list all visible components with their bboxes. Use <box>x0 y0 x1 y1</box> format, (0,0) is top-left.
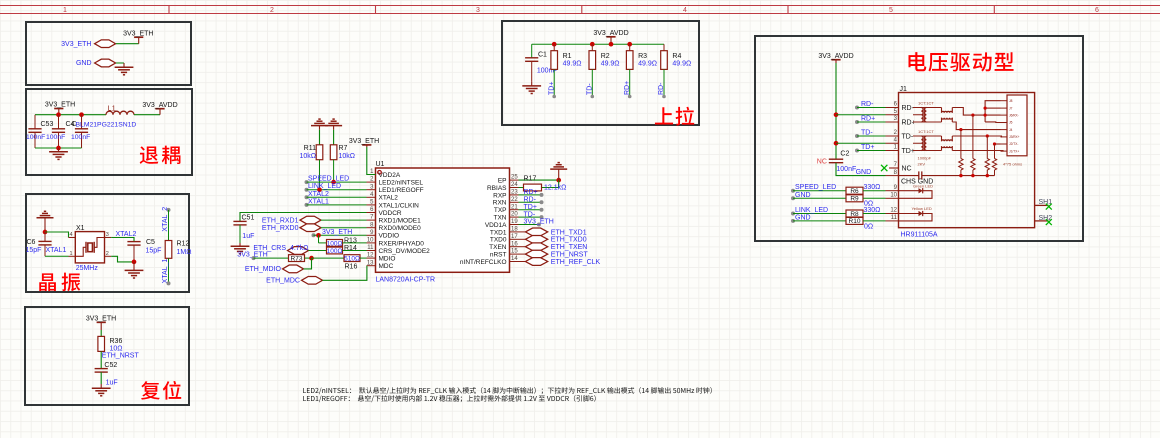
svg-text:TXEN: TXEN <box>489 244 507 251</box>
wire XTAL2 net <box>111 238 134 242</box>
node TD- <box>591 95 595 99</box>
svg-text:R8: R8 <box>850 211 859 218</box>
node TD+ <box>552 95 556 99</box>
resistor R9 <box>846 195 863 202</box>
wire R9 to pin10 <box>863 197 886 199</box>
pin 3 stub <box>886 121 899 123</box>
wire L1 to 3V3_AVDD <box>134 114 160 116</box>
wire shield row4 <box>985 121 1000 124</box>
port ETH_TXEN <box>525 243 547 251</box>
ground inverted R7 <box>333 126 335 130</box>
wire XTAL1 <box>305 203 309 207</box>
wire C51 to gnd <box>239 225 241 243</box>
wire gnd to X1 pin4 <box>45 232 69 238</box>
note LED2/nINTSEL <box>303 387 712 394</box>
wire R12 to XTAL_1 <box>168 258 170 283</box>
node XTAL_2 top <box>167 208 171 212</box>
junction <box>316 233 321 238</box>
wire ETH_NRST node <box>100 351 102 368</box>
svg-text:13: 13 <box>367 260 374 266</box>
power flag 3V3_ETH U1 <box>362 144 371 146</box>
wire bottom rail <box>35 147 82 149</box>
power flag 3V3_ETH <box>134 36 143 38</box>
power flag 3V3_AVDD magjack <box>831 59 840 61</box>
svg-text:100Ω: 100Ω <box>327 240 343 247</box>
svg-text:11: 11 <box>891 215 898 221</box>
wire centertap TD <box>836 142 886 144</box>
svg-text:14: 14 <box>511 256 518 262</box>
port ETH_NRST <box>525 250 547 258</box>
svg-text:100nF: 100nF <box>71 134 90 141</box>
wire TD- <box>591 69 593 96</box>
pin 16 TXEN <box>510 246 519 248</box>
svg-text:GND: GND <box>856 169 872 176</box>
svg-text:25MHz: 25MHz <box>76 265 99 272</box>
wire 3V3_ETH VDDIO <box>312 233 316 237</box>
wire GND port to ground <box>116 62 124 64</box>
svg-text:R7: R7 <box>339 145 348 152</box>
wire R16 to pin12 <box>360 257 367 259</box>
port ETH_TXD1 <box>525 228 547 236</box>
wire R11 to LINK_LED <box>319 160 321 190</box>
pin J1/TX+ shield box <box>1001 150 1008 152</box>
svg-text:12.1kΩ: 12.1kΩ <box>544 185 566 192</box>
svg-text:R12: R12 <box>177 241 190 248</box>
svg-text:C1: C1 <box>538 52 547 59</box>
resistor R6 <box>846 187 863 194</box>
svg-text:12: 12 <box>890 208 897 214</box>
junction <box>552 42 557 47</box>
svg-text:3: 3 <box>106 232 109 238</box>
svg-text:LINK_LED: LINK_LED <box>308 183 341 190</box>
wire RD- <box>663 69 665 96</box>
svg-text:330Ω: 330Ω <box>864 207 881 214</box>
svg-text:11: 11 <box>367 245 374 251</box>
resistor R4 <box>663 44 665 51</box>
svg-text:100nF: 100nF <box>836 166 856 173</box>
noconnect SH2 <box>1046 219 1052 225</box>
section box power flags <box>26 22 191 85</box>
resistor R1 <box>553 44 555 51</box>
title decoupling <box>140 146 181 165</box>
svg-text:330Ω: 330Ω <box>864 184 881 191</box>
resistor R10 <box>846 217 863 224</box>
resistor R14 <box>327 247 343 254</box>
svg-text:NC: NC <box>817 158 827 165</box>
svg-text:15: 15 <box>511 249 518 255</box>
svg-text:1uF: 1uF <box>106 380 118 387</box>
wire SH1 <box>1035 204 1049 206</box>
pin 5 stub <box>886 114 899 116</box>
svg-text:3V3_AVDD: 3V3_AVDD <box>818 53 853 60</box>
pin 6 VDDCR <box>367 212 376 214</box>
junction <box>627 42 632 47</box>
wire XTAL2 <box>305 195 309 199</box>
svg-text:2: 2 <box>106 251 109 257</box>
svg-text:XTAL1: XTAL1 <box>46 247 67 254</box>
wire R10 to pin11 <box>863 220 886 222</box>
wire RXD0 <box>321 227 367 229</box>
junction <box>309 256 314 261</box>
wire R73 to junction <box>305 257 312 259</box>
port ETH_CRS <box>288 247 309 255</box>
wire RD- <box>519 201 542 203</box>
wire VDDIO to R13 <box>318 235 320 243</box>
svg-text:2: 2 <box>270 7 274 14</box>
svg-text:GND: GND <box>795 214 811 221</box>
section box crystal <box>26 194 189 292</box>
wire SPEED_LED <box>305 180 309 184</box>
svg-text:TXD0: TXD0 <box>490 237 507 244</box>
junction <box>609 42 614 47</box>
ground decoupling <box>58 148 60 152</box>
wire dropper 2 <box>972 115 974 158</box>
svg-text:NC: NC <box>902 165 912 172</box>
wire RD+ <box>629 69 631 96</box>
svg-text:10kΩ: 10kΩ <box>299 153 316 160</box>
svg-text:EP: EP <box>498 178 507 185</box>
svg-text:18: 18 <box>511 227 518 233</box>
svg-text:J1: J1 <box>900 86 908 93</box>
pin 22 RXN <box>510 201 519 203</box>
power flag 3V3_AVDD pullup <box>606 36 615 38</box>
wire 3V3_AVDD vertical <box>835 63 837 159</box>
svg-text:LED1/REGOFF: LED1/REGOFF <box>379 187 424 194</box>
wire RD secondary top to RX- <box>952 108 1000 116</box>
section box magjack <box>755 36 1083 241</box>
wire dropper 3 <box>986 136 988 159</box>
svg-text:24: 24 <box>511 182 518 188</box>
svg-text:1: 1 <box>70 251 73 257</box>
pin 17 TXD0 <box>510 238 519 240</box>
resistor R16 <box>344 255 360 262</box>
wire TD- magjack <box>855 134 859 138</box>
wire pullup rail <box>532 43 664 45</box>
pin 15 nRST <box>510 253 519 255</box>
svg-text:LINK_LED: LINK_LED <box>795 207 828 214</box>
svg-text:J2/TX-: J2/TX- <box>1009 142 1018 146</box>
svg-text:RD-: RD- <box>658 82 665 95</box>
svg-text:XTAL2: XTAL2 <box>308 191 329 198</box>
svg-text:R9: R9 <box>850 196 859 203</box>
svg-text:BLM21PG221SN1D: BLM21PG221SN1D <box>76 122 137 129</box>
svg-text:TXD1: TXD1 <box>490 229 507 236</box>
section box pullup <box>502 21 699 125</box>
port ETH_REF_CLK <box>525 258 547 266</box>
resistor terminator 3 <box>985 159 989 171</box>
svg-text:C2: C2 <box>840 151 849 158</box>
svg-text:RXD0/MODE0: RXD0/MODE0 <box>379 225 422 232</box>
ground C51 <box>239 243 241 246</box>
svg-text:3V3_ETH: 3V3_ETH <box>322 229 352 236</box>
svg-text:TD-: TD- <box>902 133 914 140</box>
svg-text:21: 21 <box>511 204 518 210</box>
pin 11 stub <box>886 220 899 222</box>
svg-text:XTAL2: XTAL2 <box>116 231 137 238</box>
node RD- <box>662 95 666 99</box>
junction <box>984 107 987 110</box>
svg-text:nRST: nRST <box>490 252 507 259</box>
svg-text:ETH_RXD1: ETH_RXD1 <box>262 217 299 224</box>
sheet frame ruler <box>0 5 1160 7</box>
svg-text:4: 4 <box>70 232 73 238</box>
svg-text:10Ω: 10Ω <box>110 346 123 353</box>
ic U1 body <box>376 168 510 272</box>
wire dropper 1 <box>960 130 962 159</box>
wire C52 to gnd <box>100 372 102 384</box>
wire R8 to pin12 <box>863 213 886 215</box>
pin 12 MDIO <box>367 257 376 259</box>
wire SH2 <box>1035 220 1049 222</box>
svg-text:100Ω: 100Ω <box>327 248 343 255</box>
ground pullup <box>531 82 533 86</box>
svg-text:1MΩ: 1MΩ <box>177 249 192 256</box>
svg-text:1uF: 1uF <box>242 233 254 240</box>
pin 21 TXP <box>510 209 519 211</box>
pin 1 stub <box>886 150 899 152</box>
svg-text:XTAL_1: XTAL_1 <box>162 259 169 284</box>
transformer T-RD <box>913 107 942 109</box>
svg-text:ETH_MDIO: ETH_MDIO <box>245 266 282 273</box>
svg-text:R11: R11 <box>304 145 316 152</box>
wire TD+ <box>553 69 555 96</box>
junction <box>959 174 962 177</box>
ground reset <box>100 384 102 388</box>
svg-text:R1: R1 <box>563 53 572 60</box>
svg-text:R2: R2 <box>601 53 610 60</box>
pin 24 RBIAS <box>510 187 519 189</box>
wire dropper 4 <box>994 144 996 159</box>
ground crystal <box>133 262 135 271</box>
power flag 3V3_AVDD <box>155 108 164 110</box>
svg-text:15pF: 15pF <box>146 247 162 254</box>
port ETH_MDC <box>302 276 323 284</box>
noconnect SH1 <box>1046 204 1052 210</box>
resistor R36 <box>98 336 105 351</box>
connector shield box <box>1007 95 1027 156</box>
note LED1/REGOFF <box>303 395 596 402</box>
ground <box>123 63 125 67</box>
svg-text:CRS_DV/MODE2: CRS_DV/MODE2 <box>379 248 431 255</box>
resistor R2 <box>591 44 593 51</box>
wire CRS to R14 <box>309 250 327 252</box>
wire R7 to SPEED_LED <box>333 160 335 182</box>
wire R6 to pin9 <box>863 190 886 192</box>
pin 13 MDC <box>367 265 376 267</box>
junction <box>43 230 48 235</box>
svg-text:RXN: RXN <box>493 200 507 207</box>
svg-text:Green LED: Green LED <box>913 183 933 188</box>
svg-text:RD-: RD- <box>902 105 915 112</box>
svg-text:3V3_ETH: 3V3_ETH <box>45 102 75 109</box>
wire EP to gnd <box>519 179 559 181</box>
junction <box>556 178 561 183</box>
svg-text:100nF: 100nF <box>46 134 65 141</box>
svg-text:GND: GND <box>795 192 811 199</box>
wire junction to R16 <box>312 257 345 259</box>
svg-text:49.9Ω: 49.9Ω <box>601 61 620 68</box>
wire VDDCR to C51 <box>240 213 367 222</box>
svg-text:TXP: TXP <box>494 207 507 214</box>
wire top rail <box>35 114 106 116</box>
svg-text:22: 22 <box>511 197 518 203</box>
led yellow <box>899 213 919 215</box>
pin 10 stub <box>886 197 899 199</box>
pin J4 shield box <box>1001 129 1008 131</box>
svg-text:4.7kΩ: 4.7kΩ <box>290 245 308 252</box>
port ETH_MDIO <box>283 265 304 273</box>
title reset <box>141 381 181 400</box>
pin 1 VDD2A <box>367 174 376 176</box>
svg-text:LED2/nINTSEL: LED2/nINTSEL <box>379 180 424 187</box>
pin 4 stub <box>886 142 899 144</box>
ground inverted R11 <box>319 126 321 130</box>
pin 10 RXER/PHYAD0 <box>367 242 376 244</box>
junction <box>56 112 61 117</box>
svg-text:ETH_TXD0: ETH_TXD0 <box>551 237 587 244</box>
port ETH_RXD0 <box>300 224 321 232</box>
wire GND R10 <box>791 219 795 223</box>
junction <box>317 187 322 192</box>
pin 25 EP <box>510 179 519 181</box>
port GND <box>95 59 116 67</box>
pin 8 RXD0/MODE0 <box>367 227 376 229</box>
wire TD secondary top <box>952 135 1001 138</box>
wire centertap RD <box>836 114 886 116</box>
svg-text:J4: J4 <box>1009 128 1013 132</box>
noconnect pin7 <box>881 165 887 171</box>
svg-text:0Ω: 0Ω <box>864 223 873 230</box>
resistor R11 <box>319 130 321 145</box>
wire 3V3_ETH port to flag <box>116 43 139 45</box>
svg-text:49.9Ω: 49.9Ω <box>563 61 582 68</box>
capacitor C52 <box>95 368 108 370</box>
svg-text:RXP: RXP <box>493 192 506 199</box>
wire X1 pin2 to gnd <box>111 256 134 262</box>
wire terminator feet <box>960 170 962 176</box>
wire RD secondary bottom to row5 <box>952 122 1000 130</box>
svg-text:LAN8720AI-CP-TR: LAN8720AI-CP-TR <box>376 277 436 284</box>
capacitor C4 <box>58 115 60 129</box>
svg-text:C6: C6 <box>27 239 36 246</box>
pin 7 RXD1/MODE1 <box>367 219 376 221</box>
svg-text:RD+: RD+ <box>624 81 631 95</box>
pin 11 CRS_DV/MODE2 <box>367 250 376 252</box>
pin 20 TXN <box>510 216 519 218</box>
wire shield row7 <box>995 143 1001 145</box>
junction <box>971 114 974 117</box>
section box decoupling <box>26 89 192 175</box>
svg-text:R16: R16 <box>345 264 358 271</box>
svg-text:ETH_TXEN: ETH_TXEN <box>551 244 588 251</box>
svg-text:Yellow LED: Yellow LED <box>912 206 932 211</box>
wire ETH_NRST <box>519 253 526 255</box>
svg-text:RXD1/MODE1: RXD1/MODE1 <box>379 218 422 225</box>
svg-text:VDD2A: VDD2A <box>379 172 401 179</box>
junction <box>834 112 839 117</box>
wire TD+ <box>519 209 542 211</box>
transformer T-TD <box>913 135 942 137</box>
wire XTAL_2 to R12 <box>168 210 170 241</box>
svg-text:RD+: RD+ <box>902 119 916 126</box>
svg-text:2KV: 2KV <box>918 162 926 167</box>
svg-text:16: 16 <box>511 241 518 247</box>
wire shield row1 <box>985 101 1000 122</box>
crystal X1 <box>69 237 76 239</box>
svg-text:10: 10 <box>890 193 897 199</box>
svg-text:TD-: TD- <box>586 83 593 95</box>
wire LINK_LED magjack <box>791 212 795 216</box>
pin 1 marker <box>378 171 382 175</box>
svg-text:R14: R14 <box>344 245 357 252</box>
ground inverted crystal <box>44 218 46 232</box>
svg-text:C5: C5 <box>146 239 155 246</box>
wire 3V3_ETH to pin1 <box>367 147 376 175</box>
pin 12 stub <box>886 213 899 215</box>
svg-text:23: 23 <box>511 190 518 196</box>
resistor R13 <box>327 240 343 247</box>
pin 5 XTAL1/CLKIN <box>367 204 376 206</box>
svg-text:TD+: TD+ <box>861 144 874 151</box>
svg-text:R13: R13 <box>344 238 357 245</box>
capacitor C1 <box>531 44 533 58</box>
wire RD+ <box>519 194 542 196</box>
svg-text:1000pF: 1000pF <box>918 156 932 161</box>
wire shield row2 <box>985 107 1000 109</box>
pin 23 RXP <box>510 194 519 196</box>
pin J6/RX- shield box <box>1001 114 1008 116</box>
svg-text:TD+: TD+ <box>902 148 915 155</box>
svg-text:SPEED_LED: SPEED_LED <box>308 176 349 183</box>
svg-text:RD+: RD+ <box>861 116 875 123</box>
svg-text:SPEED_LED: SPEED_LED <box>795 184 836 191</box>
svg-text:J8: J8 <box>1009 99 1013 103</box>
pin 2 LED2/nINTSEL <box>367 181 376 183</box>
pin 9 VDDIO <box>367 234 376 236</box>
capacitor C3 <box>81 115 83 129</box>
pin 14 nINT/REFCLKO <box>510 261 519 263</box>
svg-text:10: 10 <box>367 238 374 244</box>
wire MDC to pin13 <box>323 266 367 281</box>
capacitor C51 <box>233 220 246 222</box>
pin 18 TXD1 <box>510 231 519 233</box>
svg-text:R36: R36 <box>110 338 123 345</box>
resistor terminator 2 <box>971 159 975 171</box>
svg-text:4: 4 <box>683 7 687 14</box>
svg-text:49.9Ω: 49.9Ω <box>638 61 657 68</box>
wire TD secondary bottom <box>952 150 1003 153</box>
svg-text:L1: L1 <box>108 105 116 112</box>
wire LINK_LED <box>305 188 309 192</box>
svg-text:20: 20 <box>511 212 518 218</box>
wire MDIO port to junction <box>304 258 312 269</box>
title pullup <box>655 107 694 126</box>
svg-text:100nF: 100nF <box>26 134 45 141</box>
svg-text:XTAL_2: XTAL_2 <box>162 207 169 232</box>
resistor R73 <box>289 255 305 262</box>
wire flag to R36 <box>100 330 102 336</box>
svg-text:J1/TX+: J1/TX+ <box>1009 149 1019 153</box>
svg-text:ETH_MDC: ETH_MDC <box>266 278 300 285</box>
svg-text:nINT/REFCLKO: nINT/REFCLKO <box>460 259 507 266</box>
svg-text:3V3_AVDD: 3V3_AVDD <box>142 102 177 109</box>
svg-text:3V3_ETH: 3V3_ETH <box>61 41 91 48</box>
svg-text:3V3_ETH: 3V3_ETH <box>524 219 554 226</box>
wire chassis rail <box>899 175 919 177</box>
junction <box>834 141 839 146</box>
junction <box>331 180 336 185</box>
title voltage drive type <box>908 52 1013 71</box>
